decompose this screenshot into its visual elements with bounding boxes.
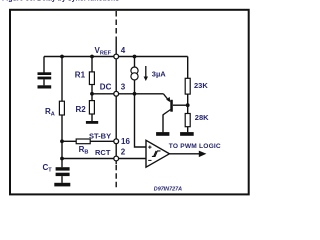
IC boundary dashed line below pin 2 (115, 161, 117, 164)
node current source top (133, 55, 137, 59)
wire RCT (62, 158, 146, 160)
svg-text:R1: R1 (75, 71, 86, 80)
wire emitter line (135, 93, 164, 95)
capacitor (VREF bypass) (38, 72, 52, 85)
svg-text:R2: R2 (76, 105, 87, 114)
arrow 3uA direction (144, 66, 148, 81)
schematic frame border (10, 10, 249, 195)
wire R1 column (91, 57, 93, 73)
svg-text:16: 16 (121, 137, 130, 146)
svg-text:ST-BY: ST-BY (89, 131, 111, 140)
node RCT junction (60, 157, 64, 161)
current source 3uA (131, 57, 138, 94)
ground (28K) (180, 132, 194, 136)
ground (R2) (86, 121, 98, 124)
node R1 top junction (90, 55, 94, 59)
wire VREF rail (44, 56, 188, 58)
wire to comparator plus input (135, 94, 147, 147)
resistor RB (76, 139, 90, 144)
resistor 28K (185, 114, 190, 127)
svg-text:28K: 28K (195, 113, 209, 122)
wire VREF down to 23K (187, 57, 189, 79)
wire DC line pin3 (92, 93, 135, 95)
pin 16 ST-BY (114, 139, 119, 144)
node RA top junction (60, 55, 64, 59)
pin 2 RCT (114, 156, 119, 161)
svg-text:3µA: 3µA (152, 69, 166, 78)
wire 23K to 28K (187, 94, 189, 114)
wire 28K to ground (187, 127, 189, 133)
node current source bottom / DC (133, 92, 137, 96)
wire RA bottom to CT (61, 115, 63, 167)
svg-text:2: 2 (121, 148, 126, 157)
wire comparator output arrow (169, 151, 206, 158)
svg-text:RCT: RCT (95, 148, 111, 157)
resistor RA (59, 101, 64, 115)
wire R1 to DC node (91, 85, 93, 101)
wire RA column upper (61, 57, 63, 102)
wire left cap drop (43, 57, 45, 73)
resistor R1 (89, 72, 94, 85)
pin 4 VREF (114, 54, 119, 59)
wire ST-BY (62, 140, 76, 142)
resistor 23K (185, 78, 190, 94)
transistor Q1 (PNP) (163, 94, 173, 133)
IC boundary dashed line above pin 4 (115, 11, 117, 40)
wire R2 to ground (91, 114, 93, 121)
ground (left cap) (38, 85, 52, 88)
wire base to divider (173, 104, 188, 106)
node ST-BY junction (60, 139, 64, 143)
ground (transistor collector) (156, 132, 169, 136)
svg-text:23K: 23K (194, 81, 208, 90)
capacitor CT (56, 167, 70, 183)
IC boundary solid line pin4..pin2 (115, 57, 117, 159)
node base/divider junction (186, 103, 190, 107)
svg-text:4: 4 (121, 46, 126, 55)
svg-text:Figure 56. Delay by sync. func: Figure 56. Delay by sync. functions (2, 0, 119, 3)
svg-text:3: 3 (121, 82, 126, 91)
resistor R2 (89, 101, 94, 114)
svg-text:DC: DC (100, 82, 112, 91)
svg-text:D97IN727A: D97IN727A (154, 186, 182, 192)
svg-text:TO PWM LOGIC: TO PWM LOGIC (169, 143, 221, 150)
pin 3 DC (114, 91, 119, 96)
op-amp U1 comparator (146, 140, 169, 167)
ground (CT) (54, 183, 70, 187)
node DC junction (90, 92, 94, 96)
